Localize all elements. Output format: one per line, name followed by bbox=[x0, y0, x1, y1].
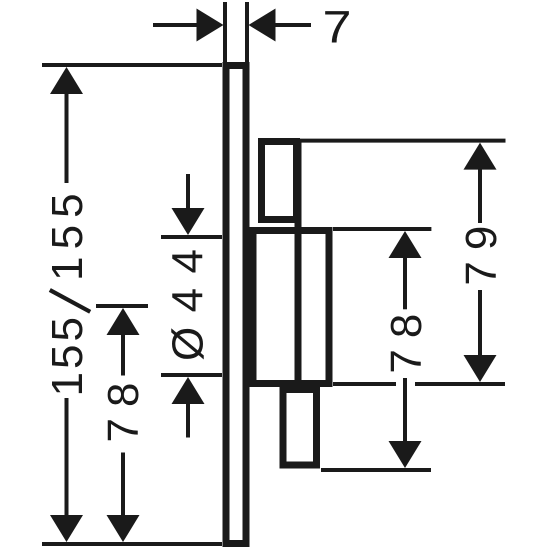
svg-text:7: 7 bbox=[323, 2, 352, 53]
wire extension line 78-left top bbox=[96, 304, 148, 308]
arrow 155 bottom bbox=[50, 515, 83, 542]
label 155/155 slash bbox=[50, 290, 90, 312]
arrow dia44 down bbox=[172, 208, 205, 235]
wire dim line 155 lower bbox=[65, 398, 69, 517]
arrow 78-right up bbox=[389, 231, 422, 258]
wire dim line 78-right upper bbox=[403, 257, 407, 309]
svg-text:Ø44: Ø44 bbox=[164, 249, 213, 361]
arrow 7 right bbox=[249, 9, 276, 42]
wire extension line 7-dim left bbox=[223, 2, 227, 65]
wire extension line dia44 bottom bbox=[161, 373, 222, 377]
arrow 78-left bottom bbox=[107, 515, 140, 542]
svg-text:155: 155 bbox=[43, 317, 92, 397]
arrow 155 top bbox=[50, 67, 83, 94]
arrow 78-right down bbox=[389, 441, 422, 468]
wire extension line 78-right top bbox=[333, 227, 431, 231]
bottom stub block bbox=[283, 390, 317, 466]
wire dim line 78-left lower bbox=[121, 453, 125, 520]
arrow 7 left bbox=[197, 9, 224, 42]
wire dim line 7 right bbox=[275, 23, 311, 27]
wire dim line 79 upper bbox=[478, 168, 482, 223]
wire dim line 78-right lower bbox=[403, 378, 407, 441]
top stub block bbox=[262, 142, 297, 220]
wall plate bbox=[226, 66, 246, 544]
arrow 78-left top bbox=[107, 308, 140, 335]
wire extension line dia44 top bbox=[161, 235, 222, 239]
arrow dia44 up bbox=[172, 377, 205, 404]
wire extension line 79 bottom right part bbox=[415, 382, 505, 386]
wire extension line 7-dim right bbox=[245, 2, 249, 65]
wire extension line 78-right bottom bbox=[321, 468, 431, 472]
wire extension line top 155 bbox=[42, 63, 222, 67]
wire dim line 7 left bbox=[153, 23, 198, 27]
wire dim line 79 lower bbox=[478, 290, 482, 358]
wire internal edge line bbox=[295, 142, 302, 384]
arrow 79 down bbox=[464, 355, 497, 382]
wire dim line 78-left upper bbox=[121, 333, 125, 376]
svg-text:155: 155 bbox=[43, 193, 92, 281]
wire dim line 155 upper bbox=[65, 92, 69, 183]
middle housing block bbox=[253, 231, 329, 384]
wire extension line 79 bottom left part bbox=[333, 382, 396, 386]
wire extension line 79 top bbox=[300, 139, 506, 143]
arrow 79 up bbox=[464, 143, 497, 170]
wire dim line dia44 upper stub bbox=[186, 174, 190, 210]
wire extension line bottom 155 bbox=[42, 542, 222, 546]
wire dim line dia44 lower stub bbox=[186, 401, 190, 438]
